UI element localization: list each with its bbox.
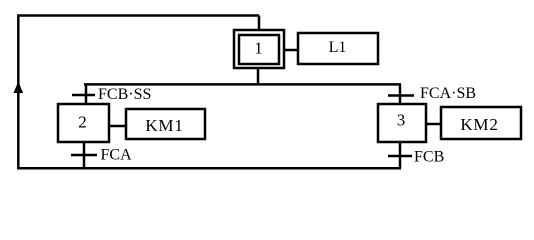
step 1 (initial step, double box) (234, 30, 284, 68)
arrowhead on left rail (flow upward) (14, 82, 24, 94)
wire divergence rail (84, 83, 401, 86)
wire step 2 to action KM1 (109, 125, 126, 128)
action box KM1 (126, 109, 205, 139)
transition FCA tick (71, 154, 97, 157)
wire right branch down to step 3 (399, 84, 402, 104)
svg-text:FCB·SS: FCB·SS (98, 86, 151, 103)
transition FCB tick (388, 155, 412, 158)
svg-text:KM1: KM1 (145, 116, 183, 135)
svg-text:KM2: KM2 (460, 115, 498, 134)
action box KM2 (441, 107, 521, 139)
svg-text:1: 1 (254, 39, 263, 58)
svg-text:2: 2 (78, 113, 87, 132)
wire feedback loop (top rail, left rail, bottom rail) (18, 16, 401, 169)
wire step 2 down to bottom rail (83, 142, 86, 168)
action box L1 (298, 33, 378, 64)
transition FCB·SS tick (72, 94, 95, 97)
svg-text:FCA·SB: FCA·SB (420, 85, 476, 102)
svg-text:L1: L1 (329, 39, 347, 56)
svg-text:FCB: FCB (414, 149, 444, 166)
step 3 box (378, 104, 426, 142)
transition FCA·SB tick (388, 94, 414, 97)
wire step 3 down to bottom rail (399, 142, 402, 168)
wire step 1 to action L1 (285, 49, 299, 52)
wire drop from top rail into step 1 (258, 16, 261, 32)
svg-text:FCA: FCA (101, 147, 133, 164)
wire step 1 down to divergence rail (257, 69, 260, 85)
step 2 box (58, 104, 109, 142)
wire left branch down to step 2 (85, 84, 88, 104)
svg-text:3: 3 (397, 111, 406, 130)
wire step 3 to action KM2 (426, 123, 441, 126)
